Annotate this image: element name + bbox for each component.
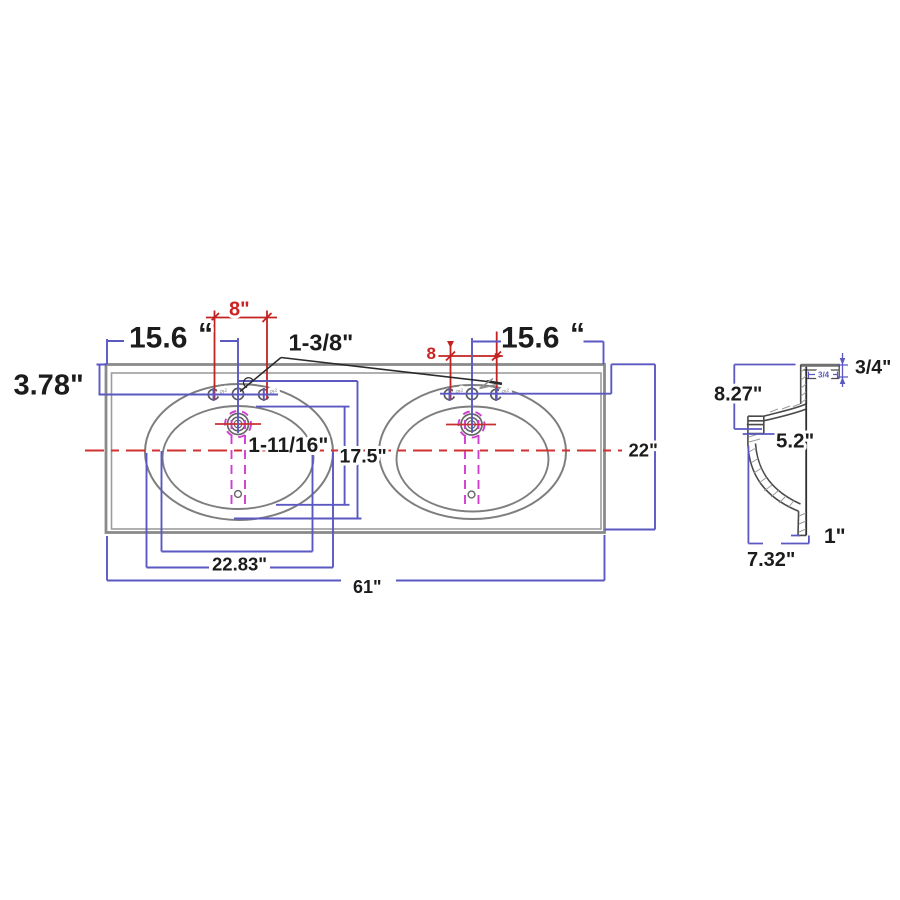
right overflow hole [468,491,475,498]
svg-text:1-11/16": 1-11/16" [248,434,328,457]
magenta hidden lines right sink [459,412,485,509]
right sink holes crosshair line [440,393,611,395]
red dimension 8in left: extension lines [206,311,277,400]
leader line for 1-3/8 [240,358,502,392]
15.6 right: dim line [473,341,604,343]
leader arrowhead gray open style [480,379,497,389]
left sink outer rim ellipse [145,384,333,520]
tiny thickness dim inside slab [809,372,838,379]
blue dimension lines [97,338,656,581]
right sink outer rim ellipse [379,385,566,519]
section: bowl outer curve [748,445,799,511]
22.83 bracket [147,452,334,568]
red dimension 8in left: dimension line with oblique ticks [206,317,277,319]
section: centerline cut [805,367,807,536]
15.6 left: extension at counter corner [106,339,108,364]
3/4 dim [838,353,849,387]
countertop inner rectangle [112,373,602,529]
countertop outer rectangle [106,365,605,533]
section hatch marks [749,368,806,532]
5.2 line [743,433,776,435]
section: neck verticals [801,365,807,404]
left sink holes vertical ticks [214,388,264,401]
left sink inner bowl ellipse [163,406,314,509]
section: neck to rim curve (two walls) [764,404,806,416]
svg-text:7.32": 7.32" [747,549,795,571]
svg-text:3.78": 3.78" [14,370,84,402]
inner bowl width bracket [162,451,313,552]
svg-text:17.5": 17.5" [340,446,387,468]
svg-text:1-3/8": 1-3/8" [289,330,354,356]
magenta hidden lines left sink [225,411,251,508]
svg-text:3/4: 3/4 [818,371,830,380]
22in bracket: step and extents [605,364,656,529]
section: counter slab top surface [801,364,841,367]
section: rim flange block [747,416,764,445]
svg-text:8: 8 [427,344,436,363]
svg-text:3/4": 3/4" [855,357,891,379]
3.78 bracket [97,365,108,395]
long horizontal reference line [99,394,279,396]
svg-text:1": 1" [824,525,846,548]
svg-text:22.83": 22.83" [212,554,267,575]
red crosshair right drain [446,424,496,426]
right sink inner bowl ellipse [397,407,549,512]
svg-text:22": 22" [629,440,658,461]
svg-text:5.2": 5.2" [776,430,814,453]
section: slab bottom and right edge [747,365,839,536]
svg-text:61": 61" [353,577,382,597]
svg-text:“: “ [570,318,585,351]
1 inch dim [791,536,809,544]
red horizontal centerline through both sinks [85,450,622,452]
7.32 dimension [748,446,809,544]
svg-text:8.27": 8.27" [714,384,762,406]
svg-text:15.6: 15.6 [129,322,187,355]
faucet holes right sink [444,388,501,399]
17.5 outer bracket [234,381,362,519]
15.6 left: dim line [107,340,238,342]
faucet holes left sink [208,388,269,399]
17.5 inner bracket [256,407,350,505]
svg-text:15.6: 15.6 [501,322,559,355]
left sink centerline vertical [237,338,239,433]
8.27 bracket [734,365,795,430]
leader end loop [244,378,253,388]
section: bowl inner curve [756,444,801,505]
left drain circles [228,414,249,435]
svg-text:8": 8" [229,299,250,321]
red dimension 8 right: extension lines [438,332,503,400]
red dimension 8 right: dimension line [438,355,503,357]
3/4 arrowheads [840,358,846,384]
left overflow hole [235,491,242,498]
15.6 right: extension at right edge [603,342,605,365]
red crosshair left drain [215,423,261,425]
section: drain stub [798,511,806,535]
section blue dimensions [734,353,848,544]
red arrowhead at top of extension [447,341,454,348]
61 dimension [107,535,605,581]
right drain circles [461,414,482,435]
right sink centerline vertical [471,338,473,433]
right sink holes vertical ticks [450,388,497,401]
svg-text:“: “ [198,318,213,351]
